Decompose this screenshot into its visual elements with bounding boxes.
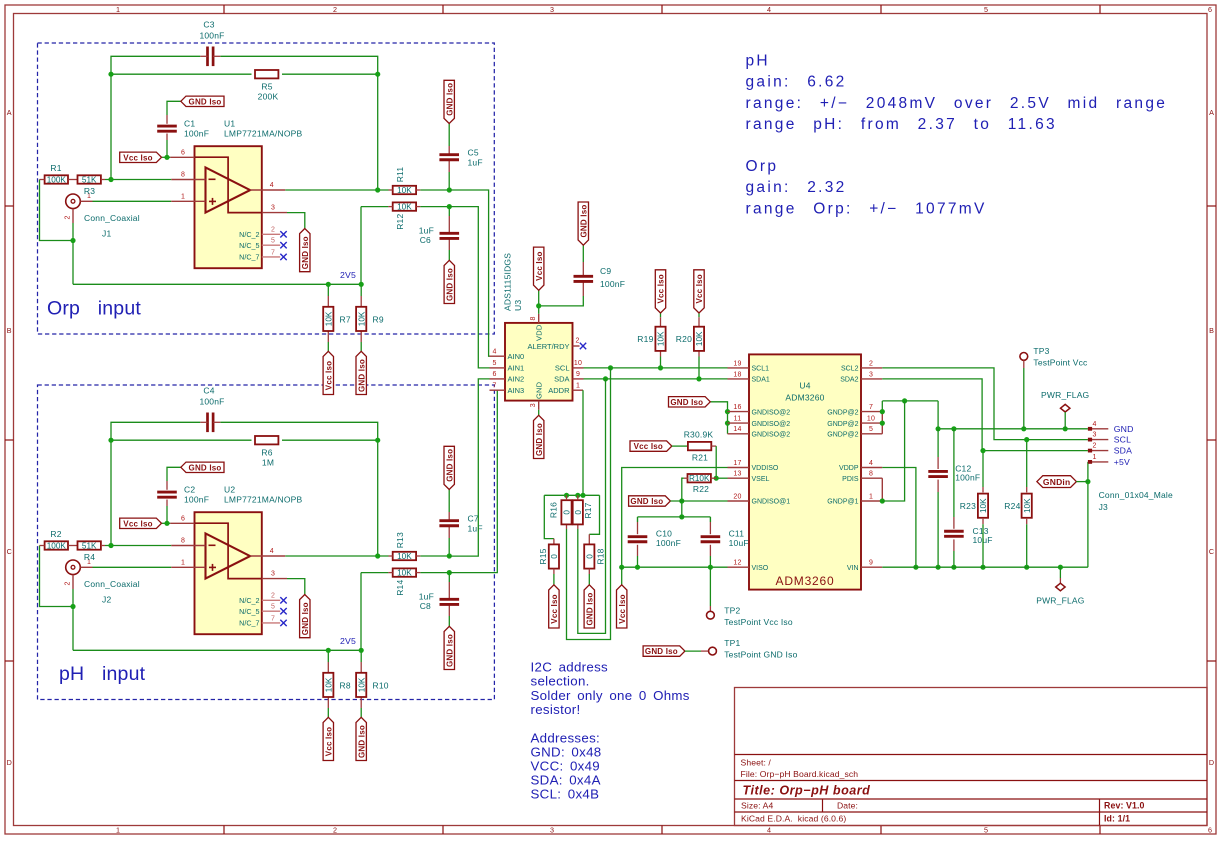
svg-text:8: 8 — [181, 538, 185, 545]
svg-text:10K: 10K — [324, 311, 333, 326]
resistor R18 — [584, 544, 594, 568]
svg-text:Vcc Iso: Vcc Iso — [634, 442, 663, 451]
resistor R2 — [45, 541, 68, 549]
test point TP3 — [1020, 353, 1028, 361]
svg-text:R6: R6 — [261, 447, 272, 457]
pins 4-7 of U3 — [490, 355, 506, 357]
svg-text:7: 7 — [271, 615, 275, 622]
svg-text:1: 1 — [181, 559, 185, 566]
svg-text:20: 20 — [733, 493, 741, 500]
svg-text:10K: 10K — [397, 552, 412, 561]
svg-text:5: 5 — [984, 5, 988, 14]
svg-text:SCL: SCL — [555, 364, 570, 373]
title block — [735, 688, 1208, 826]
svg-text:U2: U2 — [224, 484, 235, 494]
svg-text:5: 5 — [869, 426, 873, 433]
svg-text:resistor!: resistor! — [531, 702, 581, 717]
svg-text:N/C_7: N/C_7 — [239, 253, 259, 262]
wire +5V feed — [1087, 462, 1089, 567]
svg-text:ADS1115IDGS: ADS1115IDGS — [502, 253, 512, 311]
wire R2 to U2 pin 8 — [105, 545, 171, 547]
svg-text:R1: R1 — [50, 163, 61, 173]
note: pH gain text — [746, 52, 1168, 133]
resistor R3 — [78, 175, 101, 183]
resistor R13 — [393, 552, 416, 560]
power label Vcc Iso below R8 — [323, 717, 333, 760]
svg-text:TP1: TP1 — [724, 638, 740, 648]
svg-text:5: 5 — [492, 360, 496, 367]
svg-text:0: 0 — [563, 510, 572, 515]
svg-text:GND Iso: GND Iso — [630, 497, 663, 506]
pin 4 of U2 — [250, 555, 285, 557]
svg-text:GND: GND — [1114, 424, 1134, 434]
svg-text:1: 1 — [116, 825, 120, 834]
wire GNDISO@1 row — [670, 500, 727, 502]
pin 19 SCL1 of U4 — [728, 367, 750, 369]
svg-text:100nF: 100nF — [955, 473, 980, 483]
svg-text:1: 1 — [576, 382, 580, 389]
svg-text:1uF: 1uF — [468, 524, 483, 534]
svg-text:100nF: 100nF — [656, 538, 681, 548]
svg-text:5: 5 — [271, 604, 275, 611]
svg-text:R7: R7 — [340, 314, 351, 324]
pin 2 of J2 — [72, 575, 74, 589]
svg-text:4: 4 — [270, 548, 274, 555]
op-amp U2 LMP7721MA/NOPB — [195, 512, 262, 634]
svg-text:100nF: 100nF — [184, 495, 209, 505]
pin 1 of J1 — [80, 200, 92, 202]
pin 2 of J1 — [72, 209, 74, 223]
test point TP1 — [643, 646, 685, 656]
pin 2 ALERT/RDY of U3 with no-connect — [573, 345, 580, 347]
wire R21 to VSEL node — [711, 445, 716, 447]
power label Vcc Iso above R20 — [694, 270, 704, 313]
resistor R14 — [393, 568, 416, 576]
junction dots — [108, 72, 113, 77]
svg-text:3: 3 — [869, 371, 873, 378]
wire R12 to 2V5 vertical — [360, 207, 362, 285]
note: addresses list — [531, 730, 602, 801]
svg-text:C1: C1 — [184, 118, 195, 128]
pin 18 SDA1 of U4 — [728, 378, 750, 380]
wire C7 leads — [448, 490, 450, 513]
svg-text:C5: C5 — [468, 148, 479, 158]
svg-text:6: 6 — [1208, 825, 1212, 834]
svg-text:GND Iso: GND Iso — [670, 398, 703, 407]
power label GND Iso for GNDISO@2 — [669, 397, 711, 407]
pin 8 of U3 — [538, 314, 540, 323]
pin 3 of U1 — [262, 212, 287, 214]
svg-text:AIN1: AIN1 — [508, 364, 525, 373]
pin 1 ADDR of U3 — [573, 389, 584, 391]
svg-text:Title: Orp−pH board: Title: Orp−pH board — [743, 784, 871, 798]
svg-text:U4: U4 — [799, 381, 810, 391]
pin 1 of J2 — [80, 566, 92, 568]
svg-text:ADDR: ADDR — [548, 386, 570, 395]
svg-text:N/C_5: N/C_5 — [239, 241, 259, 250]
capacitor C8 — [440, 598, 460, 601]
svg-text:R20: R20 — [676, 334, 692, 344]
svg-text:13: 13 — [733, 471, 741, 478]
wire R14 row — [361, 572, 388, 574]
svg-text:N/C_2: N/C_2 — [239, 596, 259, 605]
svg-text:R21: R21 — [692, 452, 708, 462]
svg-text:10K: 10K — [695, 331, 704, 346]
svg-text:selection.: selection. — [531, 674, 590, 689]
pin 2 SCL2 of U4 — [861, 367, 882, 369]
svg-text:C4: C4 — [203, 385, 214, 395]
svg-text:4: 4 — [767, 5, 771, 14]
wire C1 to Vcc node — [167, 101, 181, 115]
power label Vcc Iso at U2 pin 6 — [120, 518, 162, 528]
svg-text:Vcc Iso: Vcc Iso — [618, 594, 627, 623]
power label Vcc Iso below R15 — [549, 585, 559, 628]
svg-text:B: B — [1209, 326, 1214, 335]
wire R15 branch — [544, 495, 554, 538]
svg-text:GNDin: GNDin — [1043, 477, 1070, 487]
connector J1 Conn_Coaxial — [66, 194, 81, 209]
wire U3 pin 8 to Vcc Iso — [538, 290, 540, 314]
capacitor C2 — [157, 491, 177, 494]
svg-text:D: D — [7, 758, 12, 767]
svg-text:10K: 10K — [397, 203, 412, 212]
svg-text:1uF: 1uF — [468, 158, 483, 168]
wire SDA row U3 to U4 — [584, 378, 728, 380]
svg-text:1: 1 — [116, 5, 120, 14]
svg-text:GND Iso: GND Iso — [579, 205, 588, 238]
wire Vcc Iso to U1 pin 6 — [162, 156, 171, 158]
svg-text:10K: 10K — [397, 569, 412, 578]
capacitor C7 — [439, 519, 459, 522]
pin 16 GNDISO@2 of U4 — [728, 411, 750, 413]
svg-text:R12: R12 — [395, 214, 405, 230]
svg-text:R10K: R10K — [689, 474, 710, 483]
capacitor C6 — [440, 232, 460, 235]
no-connect pins of U1 — [262, 233, 280, 235]
svg-text:Conn_Coaxial: Conn_Coaxial — [84, 213, 140, 223]
resistor R1 — [45, 175, 68, 183]
dashed box Orp input section — [38, 43, 495, 334]
wire C10 C11 top rail — [638, 516, 711, 518]
pin 6 of U2 — [170, 522, 194, 524]
power label GND Iso below C6 — [444, 260, 454, 303]
wire GND row — [938, 428, 1088, 430]
wire GNDP top run — [882, 400, 938, 402]
svg-text:R4: R4 — [84, 552, 95, 562]
svg-text:GND Iso: GND Iso — [301, 236, 310, 269]
svg-text:19: 19 — [733, 360, 741, 367]
svg-text:B: B — [7, 326, 12, 335]
svg-text:ALERT/RDY: ALERT/RDY — [528, 342, 570, 351]
svg-text:+5V: +5V — [1114, 457, 1130, 467]
power label GND Iso below C8 — [444, 626, 454, 669]
svg-text:gain: 2.32: gain: 2.32 — [746, 179, 847, 196]
svg-text:PWR_FLAG: PWR_FLAG — [1036, 596, 1084, 606]
capacitor C12 — [937, 429, 939, 457]
power label GND Iso below R18 — [584, 585, 594, 628]
svg-text:0: 0 — [574, 510, 583, 515]
svg-text:TP3: TP3 — [1033, 346, 1049, 356]
svg-text:Addresses:: Addresses: — [531, 730, 601, 745]
power label Vcc Iso below rail — [621, 567, 623, 585]
pin 20 GNDISO@1 of U4 — [728, 500, 750, 502]
svg-text:R3: R3 — [84, 186, 95, 196]
wire R1 to U1 pin 8 — [105, 179, 171, 181]
wire GNDP group pins 7,10,5 — [881, 412, 883, 434]
svg-text:14: 14 — [733, 426, 741, 433]
svg-text:GND Iso: GND Iso — [445, 634, 454, 667]
svg-text:2: 2 — [1093, 443, 1097, 450]
svg-text:C: C — [1209, 547, 1214, 556]
wire address selection row — [544, 494, 599, 496]
svg-text:C6: C6 — [420, 235, 431, 245]
svg-text:VISO: VISO — [752, 565, 769, 572]
svg-text:VDDISO: VDDISO — [752, 465, 779, 472]
op-amp U1 LMP7721MA/NOPB — [195, 146, 262, 268]
svg-text:100nF: 100nF — [600, 279, 625, 289]
svg-text:Vcc Iso: Vcc Iso — [550, 594, 559, 623]
pin 17 VDDISO of U4 — [728, 467, 750, 469]
svg-text:KiCad E.D.A. kicad (6.0.6): KiCad E.D.A. kicad (6.0.6) — [741, 814, 846, 824]
svg-text:3: 3 — [530, 403, 537, 407]
svg-text:10K: 10K — [357, 311, 366, 326]
svg-text:1: 1 — [1093, 454, 1097, 461]
svg-text:2: 2 — [65, 581, 72, 585]
svg-text:VSEL: VSEL — [752, 476, 770, 483]
wire output node vertical to feedback — [377, 74, 379, 190]
resistor R9 — [356, 307, 366, 331]
svg-text:3: 3 — [550, 5, 554, 14]
resistor R19 pullup — [660, 313, 662, 317]
svg-text:VCC: 0x49: VCC: 0x49 — [531, 759, 601, 774]
capacitor C5 — [439, 153, 459, 156]
svg-text:SCL2: SCL2 — [841, 366, 859, 373]
resistor R10 — [356, 673, 366, 697]
power label GND Iso at C1 — [181, 96, 224, 106]
svg-text:AIN0: AIN0 — [508, 352, 525, 361]
svg-text:Vcc Iso: Vcc Iso — [535, 251, 544, 280]
test point TP2 — [709, 567, 711, 606]
svg-text:Vcc Iso: Vcc Iso — [324, 727, 333, 756]
pin 4 VDDP of U4 — [861, 467, 882, 469]
svg-text:VIN: VIN — [847, 565, 859, 572]
pin 14 GNDISO@2 of U4 — [728, 433, 750, 435]
wire C2 to Vcc node — [167, 467, 181, 481]
resistor R17 — [573, 500, 583, 524]
pin 9 SDA of U3 — [573, 378, 584, 380]
wire SCL row U3 to U4 — [584, 367, 728, 369]
svg-text:7: 7 — [492, 383, 496, 390]
svg-text:R15: R15 — [538, 548, 548, 564]
wire R5 row — [111, 73, 252, 75]
power flag PWR_FLAG bottom — [1059, 567, 1061, 578]
svg-text:6: 6 — [181, 149, 185, 156]
svg-text:File: Orp−pH Board.kicad_sch: File: Orp−pH Board.kicad_sch — [741, 769, 859, 779]
pin 11 GNDISO@2 of U4 — [728, 422, 750, 424]
svg-text:10K: 10K — [657, 331, 666, 346]
pin 8 PDIS of U4 — [861, 477, 882, 479]
svg-text:Date:: Date: — [837, 801, 858, 811]
svg-text:R9: R9 — [373, 314, 384, 324]
wire R13 to C7 node — [420, 555, 449, 557]
svg-text:2: 2 — [271, 593, 275, 600]
svg-text:U1: U1 — [224, 118, 235, 128]
svg-text:TestPoint GND Iso: TestPoint GND Iso — [724, 649, 797, 659]
svg-text:Vcc Iso: Vcc Iso — [657, 274, 666, 303]
wire SDA2 to SDA output — [882, 379, 1088, 451]
svg-text:C8: C8 — [420, 601, 431, 611]
pin 8 of U1 — [171, 179, 205, 181]
svg-text:GNDP@2: GNDP@2 — [827, 409, 858, 416]
wire R12 row — [361, 206, 388, 208]
wire output node vertical to feedback — [377, 440, 379, 556]
wire Vcc Iso to U2 pin 6 — [162, 522, 171, 524]
power label GND Iso at U2 pin 3 — [300, 595, 310, 638]
svg-text:N/C_2: N/C_2 — [239, 230, 259, 239]
svg-text:GNDP@1: GNDP@1 — [827, 499, 858, 506]
wire R22 to GND Iso node — [682, 478, 684, 517]
wire C8 leads — [448, 573, 450, 582]
pin 3 of U3 — [538, 401, 540, 410]
power label GND Iso at C2 — [181, 462, 224, 472]
wire U1 output to R11 — [285, 189, 388, 191]
pin 5 GNDP@2 of U4 — [861, 433, 882, 435]
svg-text:R18: R18 — [595, 548, 605, 564]
svg-text:Vcc Iso: Vcc Iso — [695, 274, 704, 303]
global label GNDin — [1037, 476, 1077, 488]
svg-text:10K: 10K — [1023, 498, 1032, 513]
svg-text:AIN2: AIN2 — [508, 375, 525, 384]
wire C9 to U3 VDD node — [539, 296, 584, 306]
svg-text:SCL: SCL — [1114, 435, 1132, 445]
resistor R5 — [255, 70, 278, 78]
wire PDIS to GNDP1 — [881, 478, 883, 501]
svg-text:SDA: SDA — [554, 375, 569, 384]
resistor R7 — [323, 307, 333, 331]
svg-text:7: 7 — [869, 404, 873, 411]
wire R16 to SCL loop — [566, 524, 568, 529]
svg-text:2: 2 — [575, 338, 579, 345]
resistor R16 — [561, 500, 571, 524]
capacitor C1 — [157, 125, 177, 128]
svg-text:R19: R19 — [637, 334, 653, 344]
svg-text:1: 1 — [869, 493, 873, 500]
wire VSEL row — [716, 477, 727, 479]
power label GND Iso below R9 — [356, 351, 366, 394]
svg-text:4: 4 — [767, 825, 771, 834]
svg-text:AIN3: AIN3 — [508, 386, 525, 395]
svg-text:U3: U3 — [513, 300, 523, 311]
svg-text:10K: 10K — [324, 677, 333, 692]
pin 12 VISO of U4 — [728, 566, 750, 568]
svg-text:11: 11 — [734, 416, 742, 423]
svg-text:GND Iso: GND Iso — [357, 725, 366, 758]
pin 13 VSEL of U4 — [728, 477, 750, 479]
svg-text:Conn_01x04_Male: Conn_01x04_Male — [1099, 490, 1173, 500]
wire R10 leads — [360, 650, 362, 662]
svg-text:gain: 6.62: gain: 6.62 — [746, 74, 847, 91]
wire pH R14 node to AIN3 — [449, 390, 497, 572]
svg-text:I2C address: I2C address — [531, 659, 609, 674]
power label Vcc Iso below R7 — [323, 351, 333, 394]
svg-text:LMP7721MA/NOPB: LMP7721MA/NOPB — [224, 495, 303, 505]
svg-text:8: 8 — [530, 316, 537, 320]
svg-text:GND Iso: GND Iso — [645, 647, 678, 656]
pin 3 SDA2 of U4 — [861, 378, 882, 380]
svg-text:Conn_Coaxial: Conn_Coaxial — [84, 579, 140, 589]
resistor R24 — [1026, 440, 1028, 487]
IC U4 ADM3260 — [749, 354, 861, 589]
svg-text:2V5: 2V5 — [340, 636, 356, 646]
svg-text:Id: 1/1: Id: 1/1 — [1104, 814, 1130, 824]
power label Vcc Iso above R19 — [655, 270, 665, 313]
resistor R23 — [982, 451, 984, 487]
note: Orp gain text — [746, 158, 987, 217]
svg-text:R2: R2 — [50, 529, 61, 539]
wire Orp R12 node to AIN1 — [449, 207, 489, 368]
svg-text:2: 2 — [333, 5, 337, 14]
svg-text:R16: R16 — [548, 502, 558, 518]
wire R9 leads — [360, 284, 362, 296]
svg-text:TestPoint Vcc: TestPoint Vcc — [1033, 358, 1088, 368]
resistor R21 — [672, 445, 688, 447]
resistor R6 — [255, 436, 278, 444]
svg-text:GND Iso: GND Iso — [189, 97, 222, 106]
wire C5 leads — [448, 124, 450, 147]
power label GND Iso above C9 — [578, 202, 588, 245]
svg-text:9: 9 — [869, 560, 873, 567]
svg-text:Vcc Iso: Vcc Iso — [324, 361, 333, 390]
svg-text:GND Iso: GND Iso — [445, 83, 454, 116]
svg-text:pH: pH — [746, 52, 770, 69]
svg-text:SDA1: SDA1 — [752, 377, 770, 384]
svg-text:SDA2: SDA2 — [840, 377, 858, 384]
junction dots on SCL/SDA rows — [608, 365, 613, 370]
svg-text:2: 2 — [333, 825, 337, 834]
svg-text:1: 1 — [181, 193, 185, 200]
pin 1 of U1 — [171, 200, 205, 202]
wire 2V5 rail — [73, 283, 361, 285]
wire R18 branch — [589, 495, 599, 534]
svg-text:VDD: VDD — [534, 324, 543, 341]
pin 3 of J3 / signal SCL — [1088, 439, 1108, 441]
svg-text:GND Iso: GND Iso — [535, 423, 544, 456]
svg-text:6: 6 — [181, 515, 185, 522]
svg-text:VDDP: VDDP — [839, 465, 859, 472]
wire R11 to C5 node — [420, 189, 449, 191]
wire U1 pin 3 to GND Iso — [287, 213, 305, 229]
pin 8 of U2 — [171, 545, 205, 547]
svg-text:GND Iso: GND Iso — [301, 602, 310, 635]
svg-text:TestPoint Vcc Iso: TestPoint Vcc Iso — [724, 617, 793, 627]
svg-text:GND: GND — [534, 381, 543, 399]
svg-text:5: 5 — [271, 238, 275, 245]
svg-text:A: A — [1209, 108, 1214, 117]
wire +5V VIN rail — [882, 566, 1088, 568]
power label Vcc Iso above U3 — [534, 247, 544, 290]
pin 1 GNDP@1 of U4 — [861, 500, 882, 502]
dashed box pH input section — [38, 385, 495, 700]
svg-text:R8: R8 — [340, 680, 351, 690]
svg-text:8: 8 — [181, 172, 185, 179]
power label Vcc Iso at R21 — [630, 441, 672, 451]
pin 6 of U1 — [170, 156, 194, 158]
capacitor C10 — [637, 517, 639, 522]
svg-text:C9: C9 — [600, 266, 611, 276]
resistor R4 — [78, 541, 101, 549]
svg-text:6: 6 — [492, 371, 496, 378]
wire pH output to AIN2 — [449, 379, 489, 556]
